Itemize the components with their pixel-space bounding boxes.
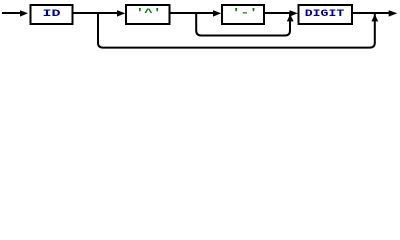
- literal box '-': [222, 5, 264, 24]
- wire '^' to '-': [170, 12, 215, 14]
- arrow up on outer bypass riser: [371, 14, 378, 21]
- literal box '^': [126, 5, 170, 24]
- svg-text:'^': '^': [136, 7, 162, 19]
- terminal box DIGIT: [299, 5, 353, 24]
- wire exit: [352, 12, 390, 14]
- wire bypass skip '-' (optional hyphen loop): [196, 13, 290, 36]
- arrow exit: [389, 10, 398, 16]
- background: [0, 0, 400, 56]
- arrow into DIGIT: [290, 10, 298, 16]
- wire bypass skip group '^' '-' DIGIT (outer optional loop): [98, 13, 375, 48]
- svg-text:DIGIT: DIGIT: [305, 8, 345, 20]
- wire ID to '^': [73, 12, 119, 14]
- arrow into ID: [20, 10, 28, 16]
- arrow into '-': [213, 10, 221, 16]
- svg-text:'-': '-': [232, 7, 258, 19]
- arrow into '^': [117, 10, 125, 16]
- terminal box ID: [31, 5, 73, 24]
- wire '-' to DIGIT: [265, 12, 291, 14]
- arrow up on riser after '-' bypass: [287, 14, 294, 21]
- wire main entry: [2, 12, 22, 14]
- svg-text:ID: ID: [43, 8, 61, 20]
